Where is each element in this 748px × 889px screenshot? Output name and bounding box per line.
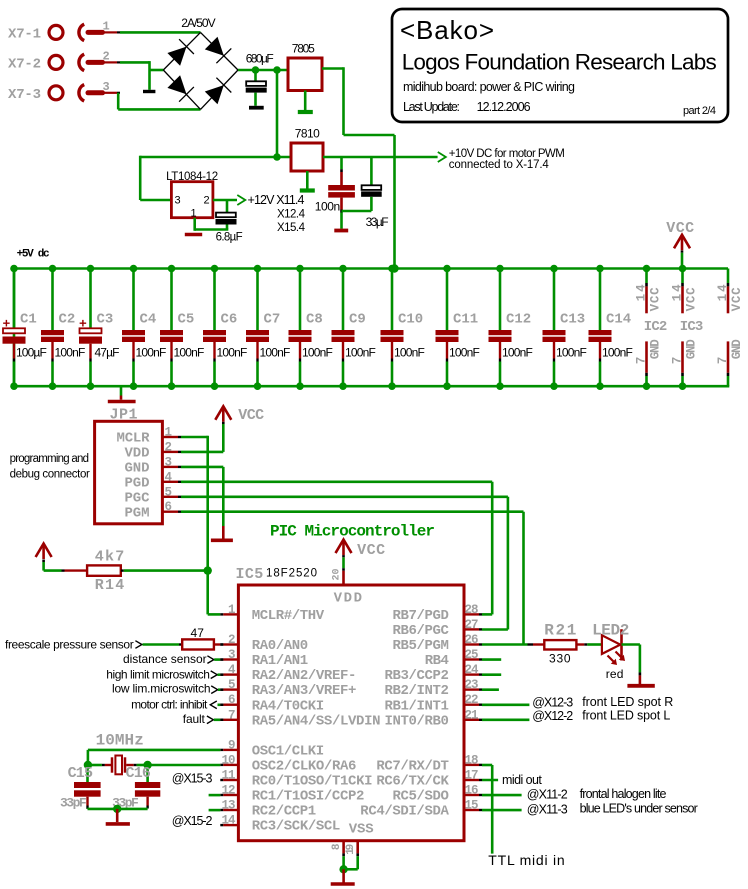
svg-text:33µF: 33µF [366, 215, 389, 229]
capacitor C6 100nF [211, 265, 219, 273]
capacitor 100n [340, 157, 343, 169]
ground at 100n [334, 229, 348, 233]
svg-text:PGC: PGC [125, 491, 151, 507]
svg-text:14: 14 [222, 814, 236, 828]
svg-text:IC3: IC3 [680, 319, 704, 335]
capacitor C7 100nF [254, 265, 262, 273]
svg-text:midi out: midi out [502, 773, 542, 787]
svg-text:C16: C16 [126, 765, 151, 782]
svg-text:GND: GND [685, 339, 699, 359]
IC power pins IC3 VCC pin 14 [679, 265, 687, 273]
wire RC6 midi out [482, 779, 498, 782]
svg-text:@X12-2: @X12-2 [532, 709, 573, 723]
svg-text:6: 6 [165, 500, 173, 514]
svg-text:RC4/SDI/SDA: RC4/SDI/SDA [360, 804, 449, 820]
PIC pin 25 RB4 [464, 658, 479, 660]
svg-text:INT0/RB0: INT0/RB0 [385, 713, 449, 729]
svg-text:R14: R14 [95, 577, 125, 594]
svg-text:PGM: PGM [125, 505, 150, 521]
wire 680uF node down to 7810 input [276, 70, 279, 157]
svg-text:21: 21 [465, 708, 479, 722]
svg-text:27: 27 [465, 618, 479, 632]
svg-text:RC1/T1OSI/CCP2: RC1/T1OSI/CCP2 [252, 789, 365, 805]
capacitor C5 100nF [168, 265, 176, 273]
svg-text:23: 23 [465, 678, 479, 692]
svg-text:@X11-3: @X11-3 [527, 802, 568, 816]
svg-text:4: 4 [228, 663, 236, 677]
svg-text:18: 18 [465, 753, 479, 767]
VCC symbol at JP1 [215, 406, 231, 420]
wire LT1084 pin1 [193, 218, 196, 231]
svg-text:7: 7 [635, 357, 649, 365]
svg-text:connected to X-17.4: connected to X-17.4 [449, 159, 550, 171]
svg-text:16: 16 [465, 784, 479, 798]
svg-text:RB4: RB4 [425, 653, 449, 669]
wire GND bottom rail [13, 385, 730, 388]
svg-text:47: 47 [191, 626, 205, 640]
svg-text:3: 3 [228, 648, 236, 662]
wire 7810 gnd [306, 171, 309, 189]
junction VSS [339, 865, 347, 873]
wire RB2 stub [482, 688, 499, 691]
PIC pin 13 RC2/CCP1 [220, 809, 223, 811]
svg-text:programming and: programming and [10, 453, 89, 465]
junction [273, 66, 281, 74]
PIC pin 12 RC1/T1OSI/CCP2 [220, 794, 223, 796]
wire RB4 stub [482, 658, 501, 661]
svg-text:front LED spot R: front LED spot R [582, 695, 673, 709]
svg-text:19: 19 [345, 844, 357, 855]
svg-text:C4: C4 [140, 312, 157, 328]
junction [113, 805, 121, 813]
wire +5V top rail [13, 267, 728, 270]
capacitor C8 100nF [296, 265, 304, 273]
svg-text:2: 2 [165, 440, 173, 454]
svg-text:GND: GND [649, 339, 663, 359]
svg-text:100nF: 100nF [345, 346, 376, 360]
svg-text:22: 22 [465, 693, 479, 707]
svg-text:high limit microswitch: high limit microswitch [106, 667, 210, 681]
ground at JP1 [222, 526, 225, 539]
capacitor C10 100nF [388, 265, 396, 273]
svg-text:4k7: 4k7 [95, 549, 125, 566]
PIC pin 9 OSC1/CLKI [220, 749, 223, 751]
capacitor C13 100nF [550, 265, 558, 273]
svg-text:RA2/AN2/VREF-: RA2/AN2/VREF- [252, 668, 357, 684]
capacitor C3 47µF [87, 265, 95, 273]
VCC symbol at R14 [36, 544, 52, 558]
svg-text:3: 3 [103, 80, 110, 94]
svg-text:5: 5 [165, 485, 173, 499]
svg-text:C14: C14 [606, 312, 631, 328]
svg-text:VCC: VCC [238, 407, 264, 424]
crystal Q1 10MHz [88, 764, 102, 767]
svg-text:C6: C6 [221, 312, 238, 328]
svg-text:RC6/TX/CK: RC6/TX/CK [376, 774, 449, 790]
svg-text:2: 2 [228, 633, 236, 647]
svg-text:Logos Foundation Research Labs: Logos Foundation Research Labs [402, 49, 717, 74]
svg-text:7: 7 [228, 708, 236, 722]
wire [117, 92, 120, 94]
svg-text:VDD: VDD [334, 591, 362, 607]
ground below GND rail [120, 396, 123, 400]
svg-text:@X11-2: @X11-2 [527, 788, 568, 802]
wire [117, 61, 120, 63]
capacitor C1 100µF [10, 265, 18, 273]
svg-text:@X15-3: @X15-3 [172, 771, 213, 785]
svg-text:14: 14 [716, 284, 730, 301]
wire OSC1 [88, 749, 220, 752]
wire RC7 TTL midi in [482, 764, 492, 767]
svg-text:Last Update:: Last Update: [403, 100, 460, 114]
wire X7-1 to bridge AC1 [120, 31, 201, 34]
svg-text:+5V dc: +5V dc [17, 249, 50, 261]
ground GND 7810 [300, 188, 315, 192]
svg-text:100µF: 100µF [16, 346, 47, 360]
svg-text:C7: C7 [264, 312, 281, 328]
svg-text:47µF: 47µF [95, 346, 120, 360]
svg-text:RB5/PGM: RB5/PGM [393, 638, 449, 654]
LED2 red [587, 643, 602, 646]
PIC pin 15 RC4/SDI/SDA [464, 809, 479, 811]
svg-text:OSC1/CLKI: OSC1/CLKI [252, 744, 325, 760]
svg-text:100nF: 100nF [502, 346, 533, 360]
svg-text:blue LED's under sensor: blue LED's under sensor [580, 802, 698, 816]
svg-text:VCC: VCC [666, 220, 694, 237]
svg-text:680µF: 680µF [246, 52, 274, 66]
svg-text:RC3/SCK/SCL: RC3/SCK/SCL [252, 819, 341, 835]
svg-text:motor ctrl: inhibit: motor ctrl: inhibit [131, 698, 208, 712]
svg-text:3: 3 [175, 195, 181, 207]
wire RB5 to PGM and R21 [482, 643, 528, 646]
wire JP1 pin1 MCLR net [181, 436, 208, 439]
wire LT1084 +12V output [213, 199, 237, 202]
svg-text:VSS: VSS [349, 822, 374, 838]
capacitor C9 100nF [339, 265, 347, 273]
PIC pin 28 RB7/PGD [464, 613, 479, 615]
wire INT0 net @X12-2 [482, 718, 529, 721]
PIC pin 7 RA5/AN4/SS/LVDIN [220, 719, 223, 721]
PIC pin 24 RB3/CCP2 [464, 673, 479, 675]
wire into PIC pin1 [208, 613, 221, 616]
svg-text:R21: R21 [544, 622, 576, 640]
PIC pin 2 RA0/AN0 [220, 643, 223, 645]
svg-text:RA1/AN1: RA1/AN1 [252, 653, 308, 669]
svg-text:7810: 7810 [295, 127, 320, 141]
PIC pin 10 OSC2/CLKO/RA6 [220, 764, 223, 766]
svg-text:100nF: 100nF [302, 346, 333, 360]
svg-text:6: 6 [228, 693, 236, 707]
capacitor C14 100nF [596, 265, 604, 273]
svg-text:12.12.2006: 12.12.2006 [477, 100, 531, 114]
wire [117, 31, 120, 33]
svg-text:PGD: PGD [125, 476, 150, 492]
svg-text:100nF: 100nF [217, 346, 248, 360]
svg-text:fault: fault [183, 712, 206, 726]
svg-text:RA4/T0CKI: RA4/T0CKI [252, 698, 325, 714]
svg-text:330: 330 [549, 652, 571, 666]
PIC pin 27 RB6/PGC [464, 628, 479, 630]
capacitor 6.8uF [226, 200, 229, 212]
junction [252, 66, 260, 74]
wire OSC2 [148, 764, 221, 767]
svg-text:25: 25 [465, 648, 479, 662]
capacitor C12 100nF [496, 265, 504, 273]
PIC pin 23 RB2/INT2 [464, 688, 479, 690]
PIC pin 11 RC0/T1OSO/T1CKI [220, 779, 223, 781]
IC power pins IC4 VCC pin 14 [727, 269, 730, 284]
svg-text:8: 8 [331, 843, 343, 850]
svg-text:LED2: LED2 [592, 622, 629, 640]
svg-text:10: 10 [222, 753, 236, 767]
svg-text:VCC: VCC [649, 287, 663, 311]
wire RB7 to PGD [482, 613, 492, 616]
svg-text:RC7/RX/DT: RC7/RX/DT [376, 759, 449, 775]
svg-text:7805: 7805 [292, 42, 315, 56]
svg-text:X7-1: X7-1 [8, 26, 41, 42]
capacitor C2 100nF [49, 265, 57, 273]
svg-text:C9: C9 [349, 312, 366, 328]
wire 7810 output +10V row [323, 156, 438, 159]
svg-text:VCC: VCC [685, 287, 699, 311]
capacitor C16 33pF [146, 765, 149, 782]
svg-text:RC5/SDO: RC5/SDO [393, 789, 449, 805]
svg-text:MCLR: MCLR [117, 431, 151, 447]
ground (chassis) at 680uF [249, 106, 264, 110]
svg-text:RA0/AN0: RA0/AN0 [252, 638, 308, 654]
ground (chassis) at X7-2 [143, 90, 155, 93]
svg-text:C8: C8 [306, 312, 323, 328]
svg-text:X12.4: X12.4 [277, 209, 306, 221]
wire PGM net [181, 510, 524, 513]
resistor R21 330 [528, 643, 534, 645]
wire RB1 net @X12-3 [482, 703, 529, 706]
svg-text:front LED spot L: front LED spot L [582, 708, 670, 722]
svg-text:C5: C5 [178, 312, 195, 328]
wire crystal gnd [88, 808, 148, 811]
PIC pin 5 RA3/AN3/VREF+ [220, 688, 223, 690]
wire 7805 gnd [304, 91, 307, 111]
svg-text:100n: 100n [315, 200, 340, 214]
svg-text:C10: C10 [398, 312, 423, 328]
PIC pin 22 RB1/INT1 [464, 704, 479, 706]
PIC pin 21 INT0/RB0 [464, 719, 479, 721]
svg-text:TTL midi in: TTL midi in [488, 852, 564, 868]
svg-text:C3: C3 [97, 312, 114, 328]
PIC pin 18 RC7/RX/DT [464, 764, 479, 766]
svg-text:GND: GND [730, 339, 744, 359]
svg-text:20: 20 [332, 568, 343, 580]
PIC pin 26 RB5/PGM [464, 643, 479, 645]
wire to LT1084 input [139, 156, 142, 200]
svg-text:X7-2: X7-2 [8, 56, 41, 72]
svg-text:VDD: VDD [125, 446, 150, 462]
svg-text:100nF: 100nF [260, 346, 291, 360]
wire RC2 stub [209, 809, 221, 812]
svg-text:18F2520: 18F2520 [266, 568, 317, 580]
svg-text:10MHz: 10MHz [96, 732, 144, 750]
svg-text:33pF: 33pF [60, 796, 87, 811]
svg-text:@X12-3: @X12-3 [532, 696, 573, 710]
svg-text:9: 9 [228, 738, 236, 752]
svg-text:VCC: VCC [357, 542, 385, 559]
wire X7-3 to bridge [117, 93, 120, 110]
svg-text:15: 15 [465, 799, 479, 813]
PIC pin 20 VDD with VCC symbol [336, 540, 352, 554]
ground at PIC [342, 869, 345, 884]
wire LED2 to ground [622, 643, 640, 646]
PIC pin 17 RC6/TX/CK [464, 779, 479, 781]
svg-text:VCC: VCC [730, 287, 744, 311]
svg-text:100nF: 100nF [55, 346, 86, 360]
svg-text:frontal halogen lite: frontal halogen lite [580, 787, 667, 801]
svg-text:1: 1 [191, 208, 197, 220]
junction [143, 761, 151, 769]
capacitor C15 33pF [86, 765, 89, 782]
svg-text:distance sensor: distance sensor [123, 652, 207, 666]
svg-text:OSC2/CLKO/RA6: OSC2/CLKO/RA6 [252, 759, 357, 775]
wire RC1 stub [209, 794, 221, 797]
wire RC4 net @X11-3 [482, 809, 522, 812]
svg-text:2: 2 [204, 195, 210, 207]
svg-text:RC0/T1OSO/T1CKI: RC0/T1OSO/T1CKI [252, 774, 373, 790]
title block frame [392, 9, 728, 122]
PIC pin 1 MCLR#/THV [220, 613, 223, 615]
svg-text:14: 14 [671, 284, 685, 301]
svg-text:low lim.microswitch: low lim.microswitch [112, 682, 211, 696]
svg-text:RB3/CCP2: RB3/CCP2 [385, 668, 449, 684]
svg-text:7: 7 [671, 357, 685, 365]
node +12V arrow [237, 195, 245, 205]
svg-text:1: 1 [103, 19, 110, 33]
IC power pins IC2 GND pin 7 [645, 341, 648, 372]
svg-text:11: 11 [222, 769, 236, 783]
wire RC5 net @X11-2 [482, 794, 522, 797]
svg-text:1: 1 [228, 603, 236, 617]
svg-text:red: red [606, 667, 624, 681]
PIC pin 3 RA1/AN1 [220, 658, 223, 660]
PIC pin 4 RA2/AN2/VREF- [220, 673, 223, 675]
node +10V arrow [438, 152, 446, 162]
ground at LT1084 [185, 233, 202, 237]
svg-text:+12V X11.4: +12V X11.4 [248, 193, 305, 207]
IC power pins IC2 VCC pin 14 [643, 265, 651, 273]
svg-text:debug connector: debug connector [10, 468, 90, 480]
svg-text:X15.4: X15.4 [277, 222, 306, 234]
wire left rail vertical [13, 269, 16, 387]
wire 7805 output to +5V rail [322, 67, 344, 70]
svg-text:RA5/AN4/SS/LVDIN: RA5/AN4/SS/LVDIN [252, 713, 381, 729]
junction 5V feed [390, 264, 398, 272]
svg-text:14: 14 [635, 284, 649, 301]
ground GND 7805 [298, 110, 313, 114]
svg-text:5: 5 [228, 678, 236, 692]
wire JP1 pin3 GND [181, 466, 223, 469]
svg-text:2: 2 [103, 49, 110, 63]
ground at LED2 [639, 675, 642, 685]
IC power pins IC3 GND pin 7 [681, 341, 684, 372]
svg-text:100nF: 100nF [174, 346, 205, 360]
wire JP1 pin2 VDD [181, 451, 223, 454]
wire bridge + output [238, 69, 288, 72]
junction [84, 761, 92, 769]
capacitor 33uF [370, 157, 373, 185]
svg-text:part 2/4: part 2/4 [683, 105, 716, 117]
svg-text:RB7/PGD: RB7/PGD [393, 608, 449, 624]
svg-text:<Bako>: <Bako> [400, 15, 494, 45]
wire PGD net [181, 480, 492, 483]
svg-text:100nF: 100nF [136, 346, 167, 360]
svg-text:X7-3: X7-3 [8, 87, 41, 103]
capacitor C4 100nF [130, 265, 138, 273]
wire PGC net [181, 495, 508, 498]
wire R14 to MCLR net [124, 569, 208, 572]
svg-text:C2: C2 [59, 312, 76, 328]
svg-text:2A/50V: 2A/50V [181, 16, 215, 30]
capacitor C11 100nF [443, 265, 451, 273]
ground at crystal [116, 809, 119, 822]
svg-text:C1: C1 [20, 312, 37, 328]
svg-text:freescale pressure sensor: freescale pressure sensor [5, 638, 134, 652]
PIC pin 14 RC3/SCK/SCL [220, 824, 223, 826]
svg-text:28: 28 [465, 603, 479, 617]
svg-text:1: 1 [165, 426, 173, 440]
IC power pins IC4 GND pin 7 [727, 341, 730, 372]
PIC pin 6 RA4/T0CKI [220, 704, 223, 706]
svg-text:RC2/CCP1: RC2/CCP1 [252, 804, 316, 820]
svg-text:100nF: 100nF [602, 346, 633, 360]
svg-text:13: 13 [222, 799, 236, 813]
svg-text:MCLR#/THV: MCLR#/THV [252, 608, 325, 624]
PIC IC5 box [238, 585, 464, 841]
svg-text:100nF: 100nF [556, 346, 587, 360]
svg-text:12: 12 [222, 784, 236, 798]
wire X7-2 to bridge AC2 [120, 61, 150, 64]
svg-text:RB6/PGC: RB6/PGC [393, 623, 450, 639]
svg-text:100nF: 100nF [449, 346, 480, 360]
svg-text:IC2: IC2 [644, 319, 668, 335]
svg-text:17: 17 [465, 769, 479, 783]
svg-text:100nF: 100nF [394, 346, 425, 360]
junction MCLR/R14 [204, 566, 212, 574]
svg-text:24: 24 [465, 663, 479, 677]
svg-text:midihub board: power & PIC wir: midihub board: power & PIC wiring [403, 80, 575, 94]
svg-text:C12: C12 [506, 312, 531, 328]
svg-text:C15: C15 [68, 765, 93, 782]
resistor R14 4k7 [44, 569, 62, 572]
PIC pin 16 RC5/SDO [464, 794, 479, 796]
wire rail to ground [120, 386, 123, 395]
svg-text:3: 3 [165, 455, 173, 469]
wire 7810 input row [140, 156, 291, 159]
svg-text:IC5: IC5 [236, 566, 264, 583]
svg-text:RB2/INT2: RB2/INT2 [385, 683, 449, 699]
svg-text:26: 26 [465, 633, 479, 647]
svg-text:7: 7 [716, 357, 730, 365]
junction [273, 153, 281, 161]
svg-text:C13: C13 [560, 312, 585, 328]
wire RB3 stub [482, 673, 501, 676]
svg-text:PIC Microcontroller: PIC Microcontroller [270, 523, 435, 541]
svg-text:C11: C11 [453, 312, 478, 328]
svg-text:@X15-2: @X15-2 [172, 814, 213, 828]
svg-text:RB1/INT1: RB1/INT1 [385, 698, 449, 714]
svg-text:6.8µF: 6.8µF [216, 232, 243, 244]
svg-text:4: 4 [165, 470, 173, 484]
svg-text:RA3/AN3/VREF+: RA3/AN3/VREF+ [252, 683, 357, 699]
wire RB6 to PGC [482, 628, 508, 631]
svg-text:GND: GND [125, 461, 150, 477]
